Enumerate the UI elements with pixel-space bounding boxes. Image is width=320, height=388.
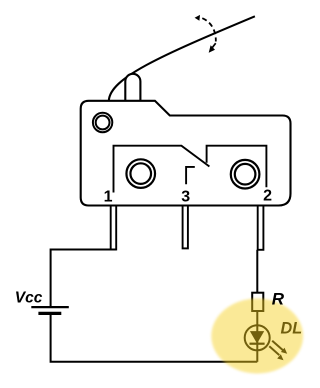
LED emission arrow 2 [269, 346, 279, 355]
contact box left part with blade [114, 146, 210, 193]
right contact circle [231, 160, 260, 189]
LED emission arrow 1 [272, 341, 283, 351]
svg-text:R: R [272, 289, 285, 308]
battery negative plate [38, 312, 61, 315]
wire pin1 to battery [51, 250, 116, 308]
motion arc (dashed) [202, 18, 216, 41]
battery positive plate [31, 306, 69, 308]
wire battery to bottom rail [51, 313, 258, 361]
motion arrowhead up-left [195, 15, 200, 21]
LED cathode bar [250, 343, 265, 345]
mounting hole [93, 113, 112, 132]
LED glow highlight [211, 299, 303, 374]
pin 3 [183, 206, 188, 249]
contact box right part [207, 146, 267, 188]
switch body outline [81, 101, 291, 206]
LED triangle [250, 331, 264, 343]
motion arrow down-left [212, 43, 215, 47]
pin 1 [111, 206, 117, 250]
common contact post [186, 167, 195, 184]
resistor R [252, 293, 263, 311]
wire resistor to bottom rail (LED lead) [256, 311, 258, 362]
lever arm of microswitch [109, 16, 255, 101]
svg-text:Vcc: Vcc [15, 290, 43, 307]
svg-text:3: 3 [181, 189, 190, 206]
wire pin2 to resistor [256, 250, 258, 293]
plunger bump [125, 74, 140, 101]
LED DL circle [245, 325, 270, 350]
svg-text:2: 2 [263, 188, 272, 205]
svg-text:1: 1 [104, 189, 113, 206]
left contact circle [126, 159, 155, 188]
pin 2 [258, 206, 264, 250]
